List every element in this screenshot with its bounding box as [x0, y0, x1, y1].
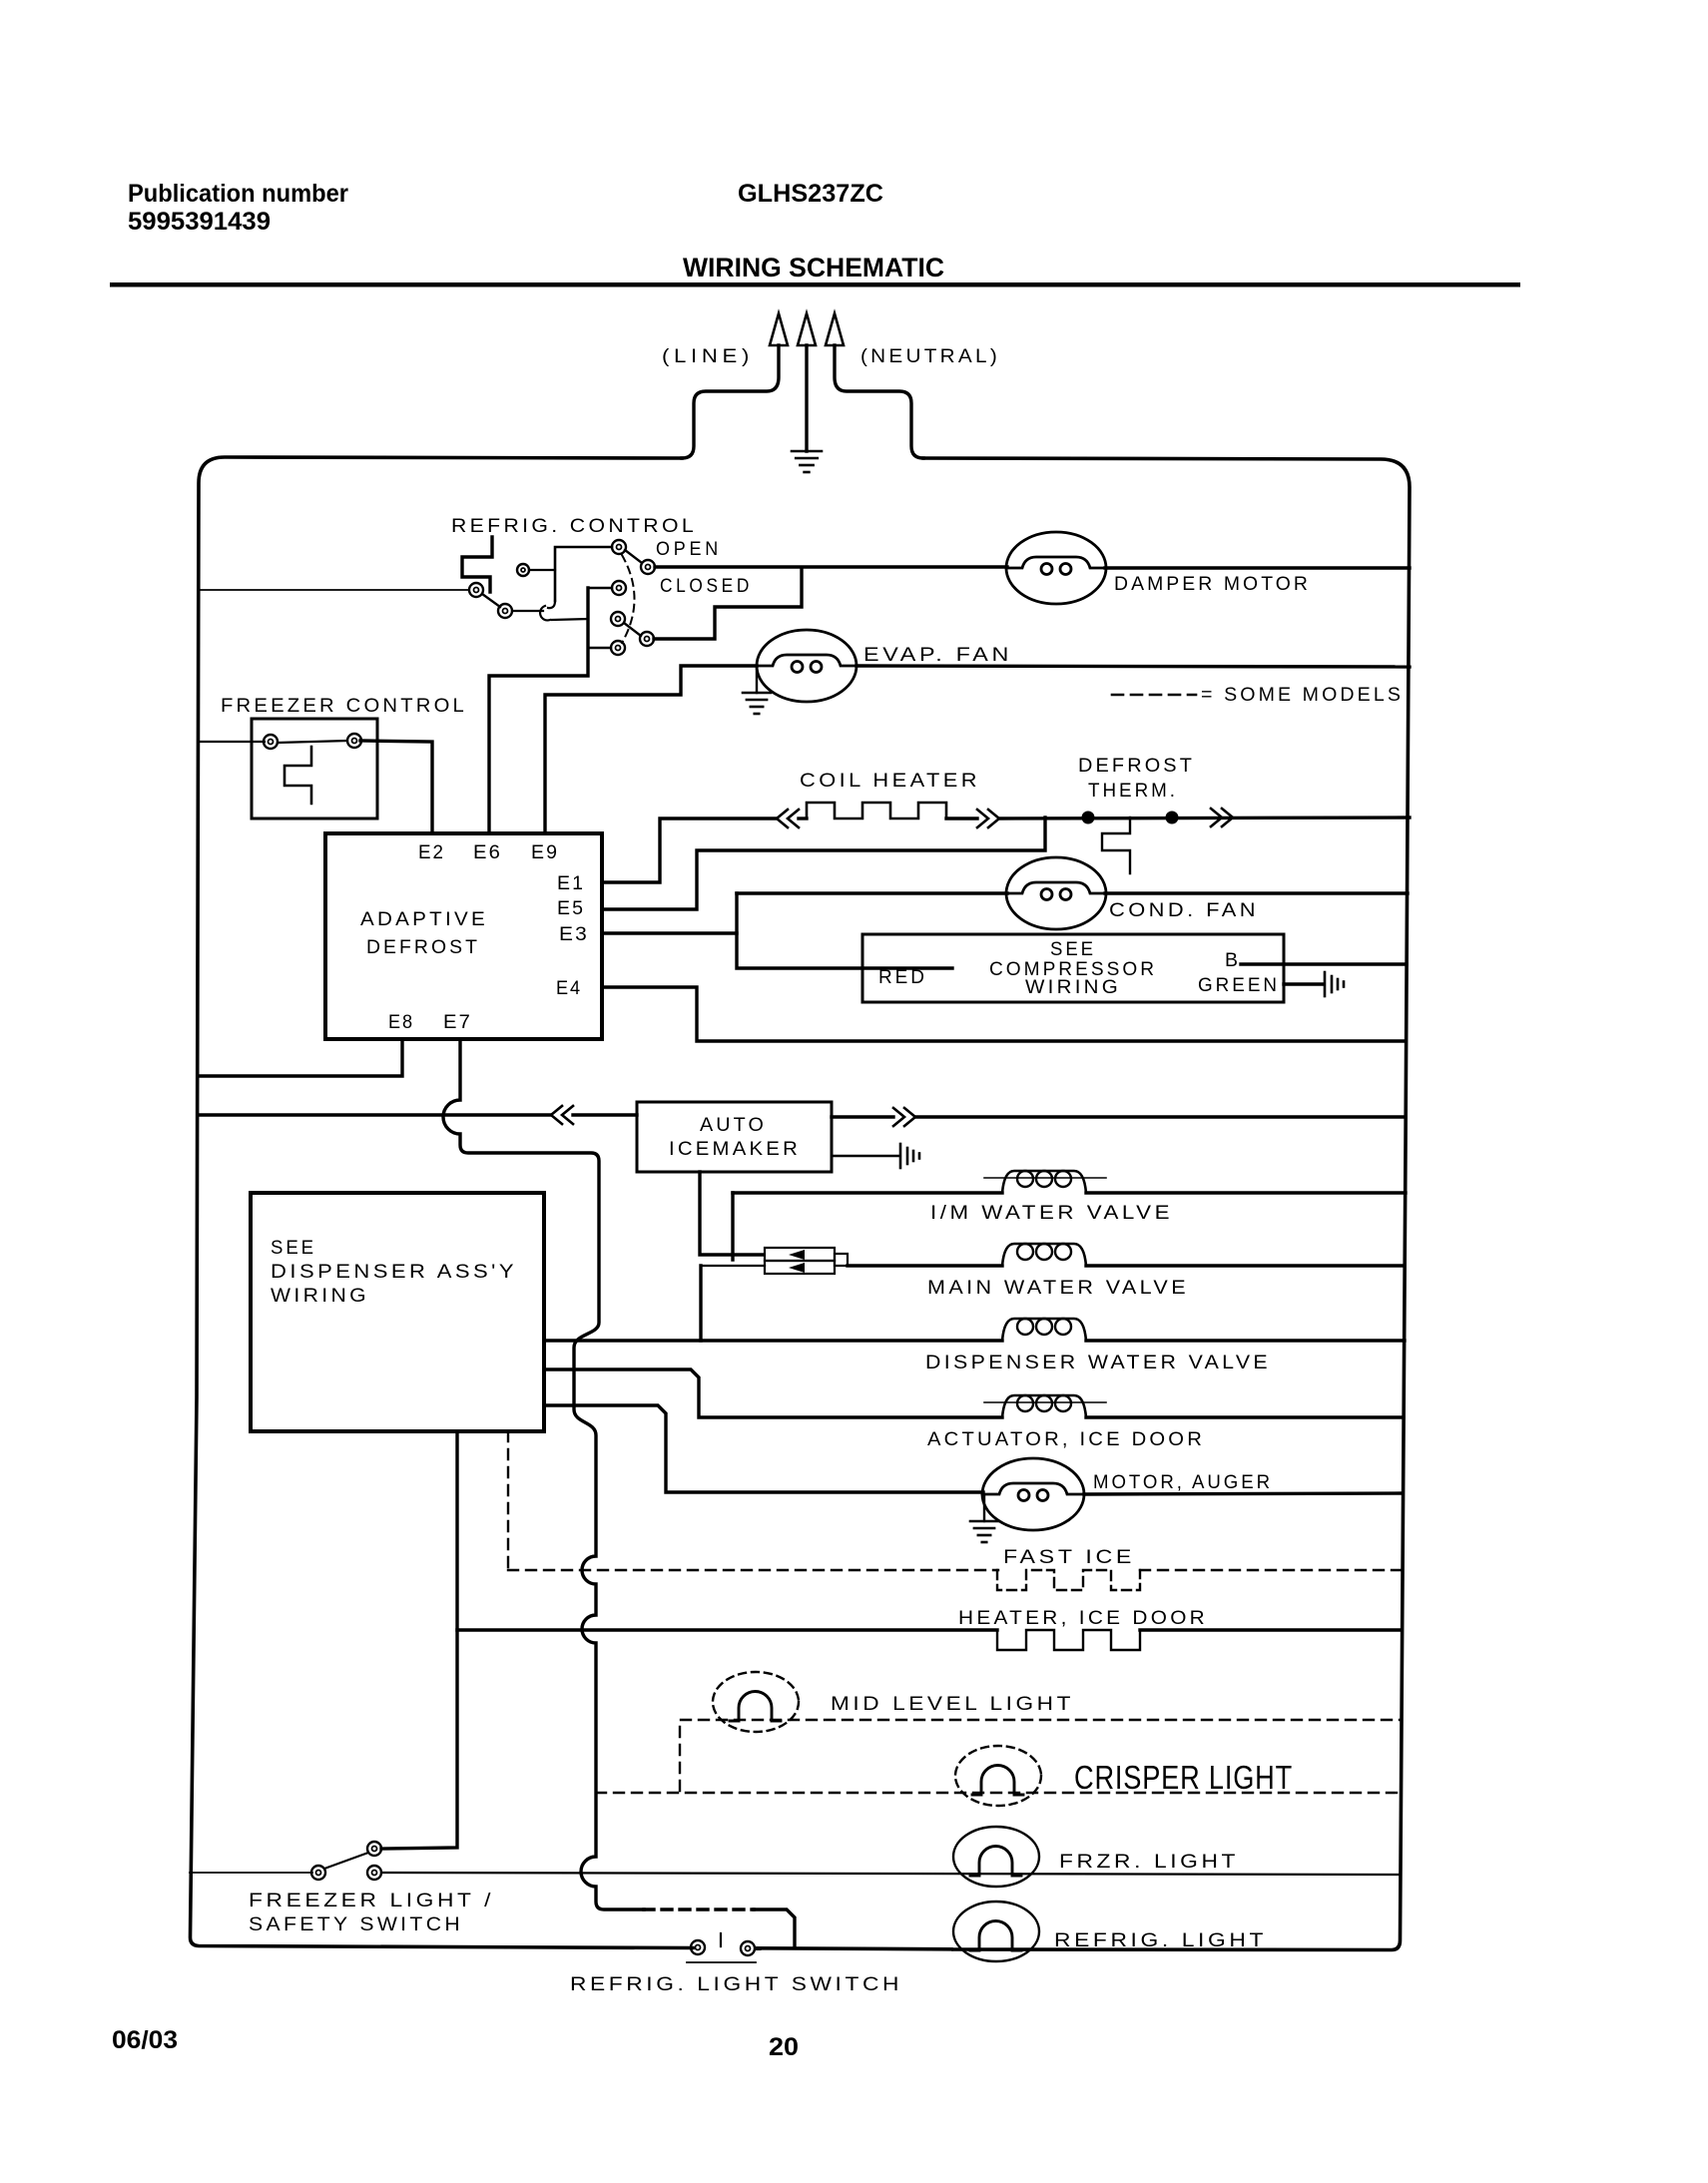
motor cond fan — [1006, 857, 1106, 929]
contact freezer control right contact — [347, 734, 361, 748]
svg-text:FREEZER CONTROL: FREEZER CONTROL — [221, 696, 467, 717]
svg-text:GLHS237ZC: GLHS237ZC — [738, 180, 883, 208]
wire wire dispenser valve row — [544, 1339, 1002, 1342]
wire wire actuator feeder — [544, 1369, 1002, 1417]
wire wire actuator row right — [1086, 1415, 1404, 1418]
wire wire switch common bus — [489, 588, 588, 833]
svg-text:GREEN: GREEN — [1198, 975, 1280, 996]
contact refrig light switch left — [691, 1940, 705, 1954]
wire wire icemaker row right — [915, 1115, 1406, 1118]
wire contact1 drop hook — [548, 601, 555, 608]
ground icemaker ground — [900, 1144, 919, 1168]
chevron coil heater right — [977, 810, 999, 827]
svg-text:DAMPER MOTOR: DAMPER MOTOR — [1114, 574, 1311, 595]
wire wire frzr row — [381, 1873, 1401, 1875]
wire wire damper row — [655, 565, 1007, 568]
freezer control thermostat zigzag — [285, 747, 311, 804]
wire wire supply ground lead — [805, 345, 808, 451]
svg-text:(LINE): (LINE) — [662, 346, 754, 367]
wire wire fast ice row right — [1140, 1569, 1402, 1571]
wire wire aux-9 stub — [588, 647, 611, 649]
svg-text:WIRING SCHEMATIC: WIRING SCHEMATIC — [683, 253, 944, 282]
wire wire mid level branch dashed — [680, 1720, 1401, 1791]
wire wire frzr row from border — [190, 1872, 312, 1874]
svg-text:REFRIG. LIGHT: REFRIG. LIGHT — [1054, 1930, 1267, 1951]
svg-text:E4: E4 — [556, 978, 582, 999]
svg-text:Publication number: Publication number — [128, 180, 348, 208]
chevron coil heater left — [777, 810, 799, 827]
lamp crisper light — [955, 1746, 1041, 1806]
wire wire auger ground stub — [983, 1496, 985, 1521]
ground compressor green ground — [1325, 972, 1344, 996]
svg-text:FAST ICE: FAST ICE — [1003, 1547, 1135, 1568]
wire wire E7 path dashed section — [644, 1908, 754, 1910]
wire wire left border to freezer control — [199, 741, 265, 743]
wire wire dispenser box drop solid — [381, 1431, 457, 1849]
wire wire coil heater lead — [799, 817, 807, 819]
wire wire E7 path to refrig switch net — [754, 1910, 795, 1947]
wire wire icemaker row left — [198, 1113, 551, 1116]
fuse end tab — [835, 1254, 848, 1266]
adaptive defrost box — [325, 833, 602, 1039]
svg-text:E2: E2 — [418, 842, 445, 863]
svg-text:HEATER, ICE DOOR: HEATER, ICE DOOR — [958, 1608, 1208, 1629]
contact freezer safety switch left — [311, 1866, 325, 1880]
contact refrig control aux-9 — [611, 641, 625, 655]
arrow supply ground plug — [798, 313, 816, 345]
ground auger ground — [970, 1521, 998, 1542]
svg-text:SEE: SEE — [271, 1238, 316, 1259]
svg-text:5995391439: 5995391439 — [128, 208, 271, 236]
svg-text:DEFROST: DEFROST — [366, 937, 480, 958]
svg-text:FREEZER LIGHT /: FREEZER LIGHT / — [249, 1891, 494, 1911]
svg-text:MID LEVEL LIGHT: MID LEVEL LIGHT — [831, 1694, 1074, 1715]
wire wire fuse net drop — [699, 1266, 702, 1341]
wire throw-5 with hop — [512, 606, 588, 620]
motor auger motor — [982, 1458, 1084, 1530]
contact refrig control pivot — [469, 583, 483, 597]
freezer control box — [252, 719, 377, 819]
contact refrig control CLOSED throw — [640, 632, 654, 646]
contact freezer safety switch upper — [367, 1842, 381, 1856]
wire wire crisper row dashed — [596, 1792, 1401, 1794]
svg-text:AUTO: AUTO — [700, 1115, 767, 1136]
resistor heater ice door — [997, 1630, 1140, 1650]
coil actuator ice door coil — [984, 1395, 1106, 1417]
svg-text:E5: E5 — [557, 898, 585, 919]
resistor coil heater — [807, 803, 946, 819]
wire wire icemaker row lead — [573, 1113, 637, 1116]
resistor fast ice heater — [997, 1570, 1140, 1590]
wire neutral lead S-curve — [835, 345, 923, 458]
rotary switch dashed arc — [622, 555, 635, 643]
wire wire mid-6 stub — [588, 587, 612, 589]
arrow (NEUTRAL) plug — [826, 313, 844, 345]
svg-text:WIRING: WIRING — [1025, 977, 1121, 998]
svg-text:MOTOR, AUGER: MOTOR, AUGER — [1093, 1472, 1273, 1493]
wire wire E5 net — [602, 818, 1045, 909]
coil I/M water valve — [984, 1171, 1106, 1193]
wire wire icemaker ground stub — [832, 1155, 898, 1157]
defrost therm contact dot left — [1082, 812, 1095, 824]
contact freezer control left contact — [264, 735, 278, 749]
wire wire coil heater right lead — [946, 817, 977, 819]
svg-text:E1: E1 — [557, 873, 585, 894]
wire wire damper row right — [1105, 566, 1410, 569]
fuse body lower — [765, 1261, 835, 1274]
wire wire aux-3 stub — [529, 569, 555, 571]
svg-text:CRISPER LIGHT: CRISPER LIGHT — [1074, 1759, 1293, 1796]
wire wire dispenser valve row right — [1086, 1339, 1405, 1342]
refrig light switch plunger — [687, 1933, 756, 1962]
svg-text:ICEMAKER: ICEMAKER — [669, 1139, 801, 1160]
svg-text:CLOSED: CLOSED — [660, 576, 753, 597]
wire wire heater row right — [1140, 1628, 1402, 1631]
wire wire fast ice row left — [508, 1569, 998, 1571]
svg-text:RED: RED — [878, 967, 927, 988]
chevron defrost row right — [1211, 809, 1233, 826]
chevron icemaker row left — [551, 1106, 573, 1124]
contact refrig light switch right — [741, 1941, 755, 1955]
wire refrig control blade CLOSED — [624, 623, 641, 636]
coil main water valve — [1002, 1244, 1086, 1266]
wire wire I/M valve row — [733, 1191, 1002, 1194]
wire wire E3 stub — [602, 931, 737, 934]
svg-text:DISPENSER ASS'Y: DISPENSER ASS'Y — [271, 1262, 517, 1283]
svg-text:THERM.: THERM. — [1088, 781, 1178, 802]
refrig control sensing bulb — [462, 537, 492, 592]
wire wire E4 row — [602, 987, 1406, 1041]
ground evap fan ground — [743, 693, 771, 714]
header rule — [110, 282, 1520, 287]
wire wire main valve fuse lead — [701, 1265, 765, 1267]
svg-text:20: 20 — [769, 2033, 799, 2061]
svg-text:REFRIG. LIGHT SWITCH: REFRIG. LIGHT SWITCH — [570, 1974, 902, 1995]
wire wire heater row left — [457, 1628, 997, 1631]
see dispenser assy wiring box — [251, 1193, 544, 1431]
contact freezer safety switch lower — [367, 1866, 381, 1880]
wire refrig control blade upper — [625, 550, 642, 563]
fuse body upper — [765, 1248, 835, 1261]
wire refrig control blade lower — [482, 594, 500, 607]
svg-text:06/03: 06/03 — [112, 2026, 178, 2054]
wire wire main valve row — [848, 1264, 1002, 1267]
lamp mid level light — [713, 1672, 799, 1732]
svg-text:OPEN: OPEN — [656, 539, 722, 560]
lamp frzr light — [953, 1827, 1039, 1887]
wire wire cond fan row right — [1105, 891, 1408, 894]
svg-text:WIRING: WIRING — [271, 1286, 369, 1307]
contact refrig control aux-3 — [517, 564, 529, 576]
wire freezer safety switch blade — [324, 1853, 368, 1869]
wire wire auger row right — [1084, 1493, 1403, 1494]
defrost therm bimetal zigzag — [1102, 818, 1130, 873]
svg-text:E9: E9 — [531, 842, 559, 863]
wire wire B to border — [1241, 962, 1407, 965]
contact refrig control mid-6 — [612, 581, 626, 595]
svg-text:E7: E7 — [443, 1012, 472, 1033]
svg-text:COIL HEATER: COIL HEATER — [800, 771, 980, 792]
ground supply ground — [792, 451, 822, 472]
wire wire evap ground stub — [756, 668, 758, 693]
arrow (LINE) plug — [770, 313, 788, 345]
wire wire icemaker row right lead — [832, 1115, 893, 1118]
lamp refrig light — [953, 1902, 1039, 1961]
auto icemaker box — [637, 1102, 832, 1172]
border bottom mid segment — [756, 1948, 951, 1949]
motor damper — [1006, 532, 1106, 604]
svg-text:E6: E6 — [473, 842, 502, 863]
svg-text:E8: E8 — [388, 1012, 414, 1033]
svg-text:I/M WATER VALVE: I/M WATER VALVE — [930, 1203, 1173, 1224]
contact refrig control OPEN throw — [641, 560, 655, 574]
wire wire defrost therm row — [999, 818, 1410, 819]
svg-text:MAIN WATER VALVE: MAIN WATER VALVE — [927, 1278, 1189, 1299]
wire wire contact1 drop — [555, 547, 612, 601]
svg-text:COND. FAN: COND. FAN — [1109, 900, 1259, 921]
wire legend dashed sample — [1112, 694, 1196, 697]
fuse bowtie mark — [789, 1250, 805, 1273]
svg-text:ADAPTIVE: ADAPTIVE — [360, 909, 488, 930]
compressor wiring box — [862, 934, 1284, 1002]
contact refrig control throw-5 — [498, 604, 512, 618]
wire wire evap row right — [856, 666, 1410, 667]
wire wire freezer control to E2 — [360, 741, 432, 833]
wire wire E8 to left border — [198, 1039, 402, 1076]
svg-text:EVAP. FAN: EVAP. FAN — [863, 645, 1012, 666]
defrost therm contact dot right — [1166, 812, 1179, 824]
wire wire fast ice drop dashed — [507, 1431, 509, 1570]
svg-text:(NEUTRAL): (NEUTRAL) — [860, 346, 1000, 367]
motor evap fan — [757, 630, 856, 702]
wire wire E3 riser — [737, 893, 952, 968]
wire wire closed-net riser — [654, 568, 802, 639]
svg-text:REFRIG. CONTROL: REFRIG. CONTROL — [451, 516, 697, 537]
svg-text:ACTUATOR, ICE DOOR: ACTUATOR, ICE DOOR — [927, 1429, 1205, 1450]
wire wire auger feeder — [544, 1405, 983, 1492]
wire wire left-border to refrig control pivot — [199, 589, 469, 591]
chevron icemaker row right — [893, 1108, 915, 1126]
border top-left segment — [191, 457, 694, 1948]
svg-text:SAFETY SWITCH: SAFETY SWITCH — [249, 1914, 463, 1935]
wire wire E1 stub — [602, 819, 777, 882]
svg-text:SEE: SEE — [1050, 939, 1096, 960]
wire wire E9 riser — [545, 666, 757, 833]
svg-text:B: B — [1225, 950, 1238, 971]
wire freezer control blade — [278, 741, 347, 743]
svg-text:DEFROST: DEFROST — [1078, 756, 1195, 777]
coil dispenser water valve — [1002, 1319, 1086, 1341]
svg-text:FRZR. LIGHT: FRZR. LIGHT — [1059, 1852, 1239, 1873]
wire wire I/M valve row right — [1086, 1191, 1406, 1194]
wire wire cond fan row — [737, 891, 1007, 894]
svg-text:E3: E3 — [559, 924, 589, 945]
wire wire main valve row right — [1086, 1264, 1405, 1267]
wire wire I/M valve riser — [731, 1193, 734, 1260]
wire wire GREEN ground lead — [1284, 982, 1324, 985]
svg-text:= SOME MODELS: = SOME MODELS — [1201, 685, 1404, 706]
wire E7 long path — [443, 1039, 644, 1910]
contact refrig control common-1 — [612, 540, 626, 554]
wire wire icemaker output drop — [700, 1172, 763, 1255]
border top-right segment — [923, 458, 1410, 1950]
svg-text:DISPENSER WATER VALVE: DISPENSER WATER VALVE — [925, 1353, 1271, 1373]
contact refrig control throw-7 — [611, 612, 625, 626]
wire line lead S-curve — [682, 345, 779, 458]
